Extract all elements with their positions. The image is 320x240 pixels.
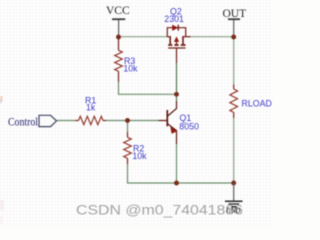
resistor R1 [76, 116, 107, 124]
svg-text:CSDN @m0_74041886: CSDN @m0_74041886 [76, 203, 243, 218]
transistor Q1 (NPN 8050) [159, 101, 178, 144]
base pin [159, 120, 167, 122]
wire: middle node down to Q1 collector [176, 94, 178, 101]
gate pin [176, 48, 178, 63]
wire: Q2 gate down to middle node [176, 63, 178, 94]
wire: R2 bottom to emitter node [128, 164, 177, 183]
drain pin stub [186, 36, 191, 38]
body diode bridge [167, 28, 185, 37]
wire: emitter node to GND node [177, 182, 234, 184]
svg-text:GND: GND [226, 206, 240, 215]
wire: Q2 drain to OUT junction [191, 36, 234, 38]
source/drain rail stubs [167, 36, 171, 38]
ground GND [225, 183, 243, 215]
svg-text:VCC: VCC [106, 5, 130, 17]
svg-text:OUT: OUT [223, 8, 247, 20]
svg-text:10k: 10k [132, 151, 147, 161]
node: control junction (R1/R2/base) [125, 118, 130, 123]
wire: OUT junction down to RLOAD [233, 37, 235, 85]
base bar [166, 110, 168, 126]
resistor RLOAD [230, 85, 238, 119]
collector [168, 101, 177, 116]
edge artifacts [0, 96, 3, 102]
svg-text:1k: 1k [86, 102, 96, 112]
wire: R3 bottom to middle node [119, 81, 177, 94]
resistor R2 [124, 132, 132, 164]
substrate arrow [176, 41, 178, 45]
svg-text:10k: 10k [123, 64, 138, 74]
node: middle junction (gate/R3/collector) [174, 92, 179, 97]
channel bars [168, 44, 172, 46]
wire: RLOAD bottom to GND node [233, 118, 235, 183]
power port VCC [106, 5, 130, 37]
node: OUT junction [231, 35, 236, 40]
contact posts [169, 37, 171, 45]
wire: VCC junction to Q2 source [119, 36, 168, 38]
wire: control node to Q1 base [128, 120, 159, 122]
svg-text:2301: 2301 [164, 14, 184, 24]
emitter [168, 124, 177, 144]
transistor Q2 (PMOS 2301) [167, 25, 190, 63]
node: ground junction [231, 181, 236, 186]
gate bar [168, 47, 185, 49]
wire: control node down to R2 [127, 121, 129, 133]
wire: port to R1 [57, 120, 76, 122]
power port OUT [223, 8, 247, 37]
wire: R1 to control node [106, 120, 128, 122]
svg-text:RLOAD: RLOAD [242, 99, 272, 109]
wire: Q1 emitter down to bottom rail [176, 144, 178, 183]
port Control [8, 115, 57, 128]
node: VCC junction [116, 35, 121, 40]
resistor R3 [115, 37, 123, 82]
svg-text:8050: 8050 [179, 122, 199, 132]
node: emitter junction [174, 181, 179, 186]
svg-text:Control: Control [8, 116, 38, 128]
